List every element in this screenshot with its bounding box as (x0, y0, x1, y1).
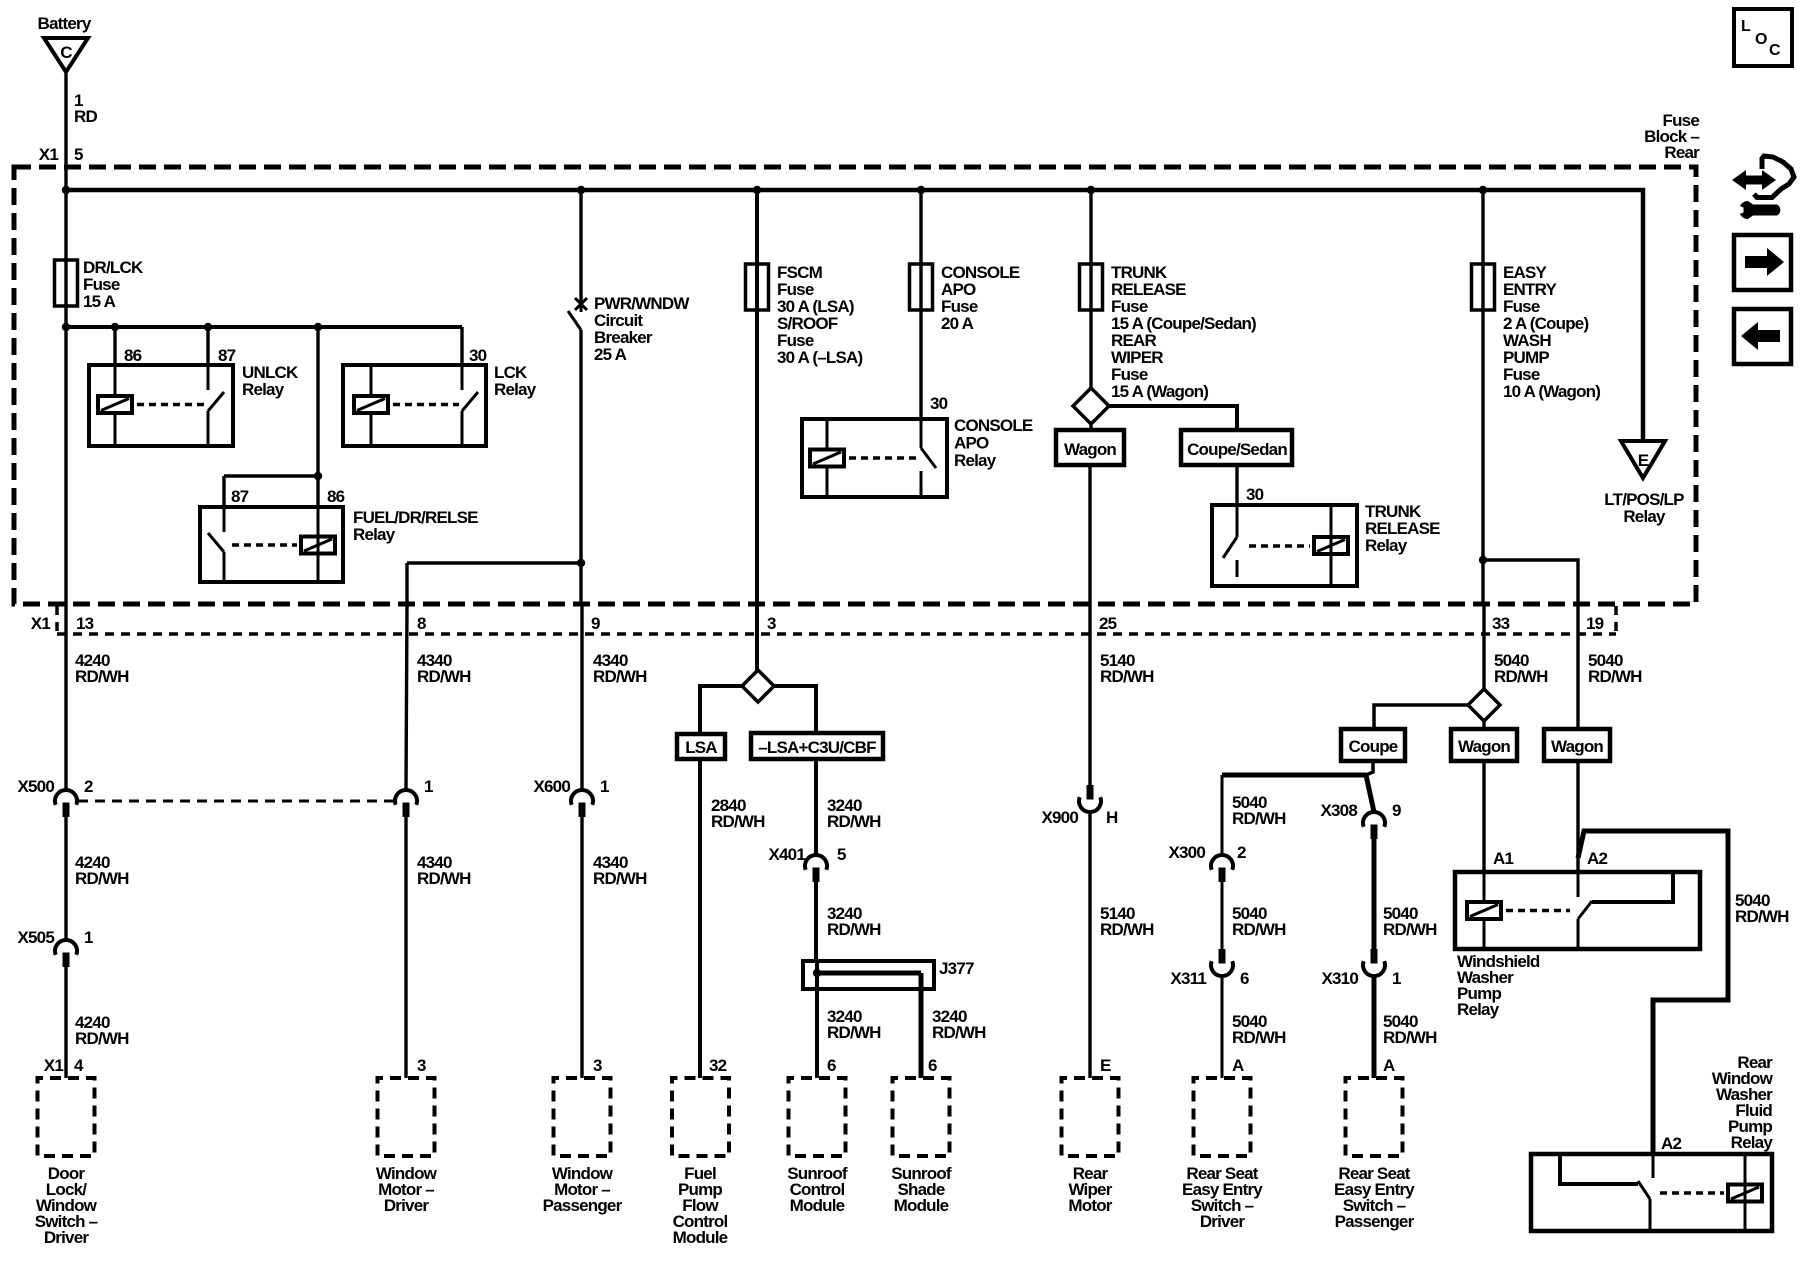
svg-text:Passenger: Passenger (1335, 1212, 1415, 1231)
relay CONSOLE APO (802, 419, 947, 497)
wire to Coupe/Sedan branch (1109, 406, 1237, 430)
svg-text:13: 13 (76, 614, 94, 633)
wire pin 3 to diamond (755, 604, 759, 670)
svg-text:Motor: Motor (1068, 1196, 1112, 1215)
svg-text:33: 33 (1492, 614, 1510, 633)
svg-text:Relay: Relay (1623, 507, 1666, 526)
svg-text:X600: X600 (533, 777, 570, 796)
wire to X1 pin 13 (64, 327, 67, 604)
svg-text:L: L (1741, 18, 1751, 35)
svg-text:Module: Module (673, 1228, 728, 1247)
box Coupe (1341, 729, 1405, 761)
svg-text:9: 9 (591, 614, 600, 633)
wire Wagon to A2 (1576, 761, 1579, 872)
svg-text:RD/WH: RD/WH (417, 869, 471, 888)
junction dots on bus (62, 186, 70, 194)
wire 3240 RD/WH to J377 (814, 882, 818, 961)
svg-text:6: 6 (827, 1056, 836, 1075)
svg-text:86: 86 (124, 346, 142, 365)
circuit breaker PWR/WNDW 25A (579, 190, 582, 303)
wire 5040 RD/WH pin 19 to Wagon (1576, 604, 1579, 729)
box Wagon (A1) (1482, 721, 1485, 729)
connector X401 pin 5 (805, 855, 827, 870)
relay LCK (460, 327, 463, 365)
triangle LT/POS/LP relay (1621, 441, 1665, 478)
svg-text:Coupe/Sedan: Coupe/Sedan (1187, 440, 1287, 459)
svg-text:RD/WH: RD/WH (75, 869, 129, 888)
svg-text:X1: X1 (44, 1056, 64, 1075)
connector X500 pin 2 (55, 790, 77, 805)
splice diamond trunk release (1073, 388, 1109, 424)
svg-text:E: E (1638, 451, 1649, 470)
svg-text:RD/WH: RD/WH (827, 920, 881, 939)
svg-text:–LSA+C3U/CBF: –LSA+C3U/CBF (758, 738, 876, 757)
svg-text:Wagon: Wagon (1551, 737, 1603, 756)
svg-text:3: 3 (593, 1056, 602, 1075)
connector X300 pin 2 (1211, 855, 1233, 870)
svg-text:Wagon: Wagon (1064, 440, 1116, 459)
svg-text:Coupe: Coupe (1349, 737, 1398, 756)
svg-text:30: 30 (469, 346, 487, 365)
wire 4340 RD/WH driver (406, 604, 407, 790)
svg-text:A2: A2 (1587, 849, 1607, 868)
wire branch pin 19 (1479, 556, 1487, 564)
svg-text:X308: X308 (1320, 801, 1357, 820)
splice diamond LSA (742, 670, 774, 702)
svg-text:2: 2 (1237, 843, 1246, 862)
svg-text:Battery: Battery (38, 14, 92, 33)
wire Wagon to pin 25 (1088, 465, 1091, 604)
wire Wagon to A1 (1482, 761, 1485, 872)
svg-text:Relay: Relay (1731, 1133, 1774, 1152)
svg-text:RD/WH: RD/WH (827, 812, 881, 831)
svg-text:A: A (1232, 1056, 1244, 1075)
svg-text:6: 6 (928, 1056, 937, 1075)
svg-text:30 A (–LSA): 30 A (–LSA) (777, 348, 862, 367)
box Coupe/Sedan (1181, 430, 1292, 465)
component Door Lock/Window Switch Driver (38, 1078, 95, 1156)
svg-text:87: 87 (231, 487, 249, 506)
svg-text:J377: J377 (939, 959, 974, 978)
svg-text:RD/WH: RD/WH (417, 667, 471, 686)
svg-text:1: 1 (84, 928, 93, 947)
svg-text:C: C (60, 43, 72, 62)
svg-text:C: C (1769, 42, 1781, 59)
wire 3240 RD/WH sunroof shade (919, 973, 924, 1078)
svg-text:6: 6 (1240, 969, 1249, 988)
svg-text:Wagon: Wagon (1458, 737, 1510, 756)
svg-text:RD/WH: RD/WH (1494, 667, 1548, 686)
svg-text:25 A: 25 A (594, 345, 627, 364)
svg-text:X1: X1 (39, 145, 59, 164)
wire relay feed line (66, 325, 462, 329)
wire 5040 RD/WH to driver switch (1221, 976, 1224, 1078)
svg-text:15 A (Wagon): 15 A (Wagon) (1111, 382, 1208, 401)
svg-text:A2: A2 (1661, 1134, 1681, 1153)
wire to -LSA box (774, 686, 816, 733)
relay UNLCK (113, 327, 116, 365)
icon arrow left box (1734, 309, 1791, 364)
svg-text:Relay: Relay (494, 380, 537, 399)
svg-text:X500: X500 (17, 777, 54, 796)
connector X600 pin 1 (571, 790, 593, 805)
svg-text:H: H (1106, 808, 1118, 827)
fuse block border (dashed) (14, 167, 1696, 604)
svg-text:RD/WH: RD/WH (711, 812, 765, 831)
svg-text:Driver: Driver (384, 1196, 430, 1215)
svg-text:RD/WH: RD/WH (932, 1023, 986, 1042)
svg-text:RD/WH: RD/WH (1383, 1028, 1437, 1047)
wire 5040 RD/WH to passenger switch (1372, 976, 1377, 1078)
connector X311 pin 6 (1219, 949, 1226, 964)
svg-text:Relay: Relay (954, 451, 997, 470)
relay FUEL/DR/RELSE (316, 327, 319, 507)
wire 3240 RD/WH sunroof control (815, 973, 819, 1078)
svg-text:25: 25 (1099, 614, 1117, 633)
wire 5040 RD/WH to X311 (1221, 882, 1224, 949)
wire 5040 RD/WH header (1222, 773, 1366, 778)
svg-text:RD/WH: RD/WH (827, 1023, 881, 1042)
svg-text:15 A: 15 A (83, 292, 116, 311)
svg-text:LSA: LSA (685, 738, 717, 757)
box LSA (677, 734, 725, 759)
box -LSA+C3U/CBF (751, 733, 883, 759)
svg-text:RD/WH: RD/WH (593, 869, 647, 888)
fuse FSCM 30A (755, 190, 759, 604)
svg-text:19: 19 (1586, 614, 1604, 633)
svg-text:Passenger: Passenger (543, 1196, 623, 1215)
svg-text:X401: X401 (768, 845, 805, 864)
svg-text:Relay: Relay (1365, 536, 1408, 555)
wire battery to bus (64, 72, 67, 190)
svg-text:X900: X900 (1041, 808, 1078, 827)
svg-text:30: 30 (1246, 485, 1264, 504)
connector X1 row (dashed) (57, 632, 1616, 636)
wire 5040 RD/WH to X310 (1372, 839, 1377, 949)
wire 4240 RD/WH to X500 (64, 604, 67, 790)
fuse TRUNK RELEASE / REAR WIPER (1089, 190, 1092, 388)
svg-text:RD/WH: RD/WH (1232, 1028, 1286, 1047)
svg-text:5: 5 (837, 845, 846, 864)
svg-text:86: 86 (327, 487, 345, 506)
svg-text:RD/WH: RD/WH (1100, 667, 1154, 686)
svg-text:3: 3 (767, 614, 776, 633)
icon hyperlink arrows and wrench (1732, 170, 1776, 190)
svg-text:X505: X505 (17, 928, 54, 947)
icon arrow right box (1734, 235, 1791, 290)
svg-text:A: A (1383, 1056, 1395, 1075)
wire 4340 RD/WH passenger (580, 604, 583, 790)
svg-text:RD/WH: RD/WH (1588, 667, 1642, 686)
svg-text:RD: RD (74, 107, 97, 126)
wire Coupe/Sedan to relay 30 (1235, 465, 1238, 505)
svg-text:5: 5 (74, 145, 83, 164)
svg-text:Relay: Relay (353, 525, 396, 544)
wire 5040 RD/WH tap to rear washer relay (1578, 831, 1728, 1154)
svg-text:CONSOLE: CONSOLE (954, 416, 1033, 435)
svg-text:RD/WH: RD/WH (1735, 907, 1789, 926)
bus wire from battery across fuse block (66, 190, 1643, 441)
svg-text:20 A: 20 A (941, 314, 974, 333)
connector X505 pin 1 (55, 940, 77, 955)
svg-text:Rear: Rear (1664, 143, 1700, 162)
wire 5140 RD/WH to X900 (1088, 604, 1091, 786)
svg-text:RD/WH: RD/WH (1232, 809, 1286, 828)
svg-text:Module: Module (790, 1196, 845, 1215)
svg-text:RD/WH: RD/WH (1232, 920, 1286, 939)
svg-text:87: 87 (218, 346, 236, 365)
svg-text:O: O (1755, 31, 1767, 48)
icon LOC box (1734, 9, 1792, 66)
svg-text:RD/WH: RD/WH (1383, 920, 1437, 939)
svg-text:A1: A1 (1493, 849, 1513, 868)
svg-text:10 A (Wagon): 10 A (Wagon) (1503, 382, 1600, 401)
svg-text:1: 1 (1392, 969, 1401, 988)
svg-text:APO: APO (954, 434, 989, 453)
connector pin 1 window motor driver (395, 790, 417, 805)
wire branch pin 8 (577, 559, 585, 567)
svg-text:E: E (1100, 1056, 1111, 1075)
box Wagon (rear wiper) (1089, 424, 1092, 430)
wire 4240 RD/WH to switch (64, 967, 67, 1078)
splice diamond wash pump (1468, 689, 1500, 721)
splice J377 (803, 961, 934, 989)
wire Coupe to X308 (1366, 761, 1373, 775)
connector X308 pin 9 (1363, 812, 1385, 827)
svg-text:RD/WH: RD/WH (1100, 920, 1154, 939)
svg-text:X1: X1 (31, 614, 51, 633)
relay TRUNK RELEASE (1212, 505, 1357, 586)
svg-text:3: 3 (417, 1056, 426, 1075)
box Wagon (A2) (1544, 729, 1610, 761)
svg-text:Driver: Driver (44, 1228, 90, 1247)
svg-text:9: 9 (1392, 801, 1401, 820)
connector X900 pin H (1087, 785, 1094, 800)
wire 3240 RD/WH to X401 (814, 759, 818, 855)
svg-text:30: 30 (930, 394, 948, 413)
svg-text:X310: X310 (1321, 969, 1358, 988)
svg-text:Module: Module (894, 1196, 949, 1215)
svg-text:8: 8 (417, 614, 426, 633)
fuse EASY ENTRY / WASH PUMP (1481, 190, 1484, 604)
svg-text:RD/WH: RD/WH (75, 1029, 129, 1048)
wire 4240 RD/WH to X505 (64, 817, 67, 940)
svg-text:32: 32 (709, 1056, 727, 1075)
dashed connector link X500 (78, 800, 394, 803)
svg-text:RD/WH: RD/WH (593, 667, 647, 686)
wire 5140 RD/WH to motor (1088, 812, 1091, 1078)
svg-text:X311: X311 (1170, 969, 1206, 988)
svg-text:RD/WH: RD/WH (75, 667, 129, 686)
svg-text:1: 1 (600, 777, 609, 796)
wire 2840 RD/WH fuel pump (698, 759, 702, 1078)
connector X310 pin 1 (1371, 949, 1378, 964)
wire to LSA box (700, 686, 742, 734)
wire diamond to Coupe box (1374, 705, 1468, 729)
fuse CONSOLE APO 20A (919, 190, 922, 419)
svg-text:Relay: Relay (242, 380, 285, 399)
svg-text:2: 2 (84, 777, 93, 796)
svg-text:Driver: Driver (1200, 1212, 1246, 1231)
fuse DR/LCK 15A (64, 190, 67, 327)
relay Windshield Washer Pump (1455, 872, 1700, 949)
svg-text:4: 4 (74, 1056, 84, 1075)
svg-text:1: 1 (424, 777, 433, 796)
svg-text:X300: X300 (1168, 843, 1205, 862)
wire 5040 RD/WH pin 33 (1482, 604, 1485, 689)
svg-text:Relay: Relay (1457, 1000, 1500, 1019)
